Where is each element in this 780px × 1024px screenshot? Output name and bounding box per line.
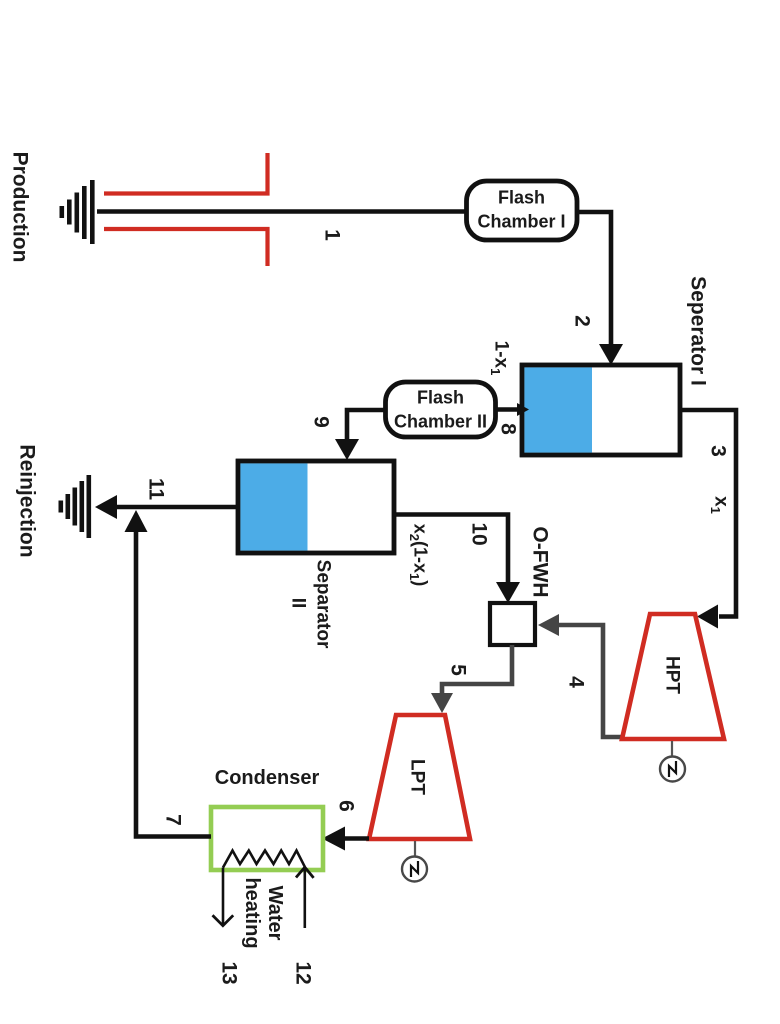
svg-text:Chamber I: Chamber I — [477, 211, 565, 231]
svg-text:Water: Water — [264, 886, 286, 941]
svg-text:6: 6 — [335, 800, 358, 812]
O-FWH box — [490, 603, 535, 645]
wire 13 cooling water out — [213, 868, 234, 926]
svg-text:HPT: HPT — [661, 656, 682, 694]
generator of HPT — [660, 741, 685, 782]
svg-text:11: 11 — [145, 478, 168, 501]
flash chamber I — [467, 181, 578, 240]
wire 6 LPT to condenser — [322, 827, 369, 851]
wire 12 cooling water in — [296, 867, 314, 928]
svg-text:Seperator I: Seperator I — [687, 276, 710, 386]
svg-text:II: II — [287, 598, 308, 609]
svg-text:12: 12 — [292, 961, 315, 984]
svg-text:x2(1-x1): x2(1-x1) — [407, 524, 431, 587]
svg-text:5: 5 — [447, 664, 470, 676]
svg-text:9: 9 — [310, 416, 333, 428]
svg-text:1-x1: 1-x1 — [488, 341, 512, 376]
flash chamber II — [386, 382, 496, 437]
wire 7 condenser to reinjection line — [125, 510, 212, 837]
separator II vessel — [238, 461, 394, 553]
svg-text:2: 2 — [571, 315, 594, 327]
well casing red lower — [104, 229, 268, 266]
svg-text:Flash: Flash — [498, 187, 545, 207]
separator I vessel — [522, 365, 680, 455]
svg-text:Condenser: Condenser — [215, 767, 320, 789]
wire 2 Flash Chamber I to Separator I — [577, 212, 623, 365]
svg-text:10: 10 — [468, 522, 491, 545]
turbine LPT — [369, 715, 470, 839]
svg-text:8: 8 — [497, 423, 520, 435]
svg-text:Flash: Flash — [417, 387, 464, 407]
svg-text:4: 4 — [565, 676, 588, 688]
wire 4 HPT extraction to O-FWH — [538, 614, 621, 737]
svg-text:Chamber II: Chamber II — [394, 411, 487, 431]
label Separator II — [287, 560, 333, 649]
condenser cooling coil — [223, 851, 305, 868]
production well formation bars — [60, 180, 95, 244]
svg-text:1: 1 — [321, 229, 344, 241]
reinjection well formation bars — [59, 475, 92, 538]
wire 9 Flash Chamber II to Separator II — [335, 410, 385, 460]
wire 8 Separator I to Flash Chamber II — [495, 403, 529, 416]
wire 3 Separator I to HPT — [680, 410, 736, 629]
svg-text:7: 7 — [162, 814, 185, 826]
wire 5 O-FWH to LPT — [431, 645, 512, 713]
svg-text:Reinjection: Reinjection — [16, 444, 39, 557]
svg-text:LPT: LPT — [406, 759, 427, 795]
svg-text:x1: x1 — [708, 496, 732, 514]
label Water heating — [241, 877, 286, 948]
well casing red upper — [104, 153, 268, 194]
turbine HPT — [622, 614, 724, 739]
svg-text:3: 3 — [707, 445, 730, 457]
svg-text:heating: heating — [241, 877, 263, 948]
generator of LPT — [402, 841, 427, 882]
wire 10 Separator II to O-FWH — [394, 515, 520, 604]
condenser box — [211, 807, 323, 870]
svg-text:Separator: Separator — [312, 560, 333, 649]
wire 1 production well to Flash Chamber I — [97, 209, 468, 214]
svg-text:Production: Production — [9, 152, 32, 263]
svg-text:13: 13 — [218, 961, 241, 984]
svg-text:O-FWH: O-FWH — [529, 526, 552, 597]
wire 11 Separator II to reinjection well — [95, 495, 238, 519]
